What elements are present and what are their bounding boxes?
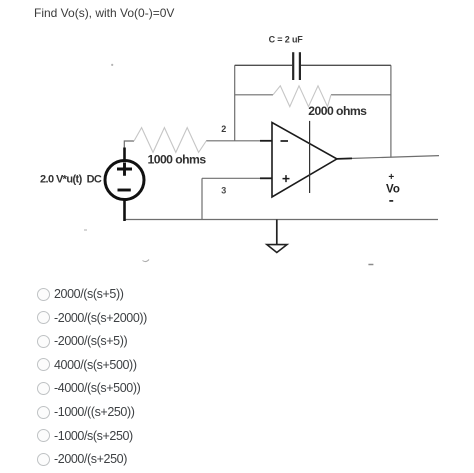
svg-text:3: 3 [221, 186, 226, 196]
svg-text:C = 2 uF: C = 2 uF [269, 34, 304, 44]
svg-text:2: 2 [221, 124, 226, 134]
svg-text:2000 ohms: 2000 ohms [308, 104, 367, 118]
svg-text:Vo: Vo [386, 183, 400, 195]
svg-text:1000 ohms: 1000 ohms [148, 153, 207, 167]
svg-text:+: + [388, 172, 394, 183]
svg-text:2.0 V*u(t) DC: 2.0 V*u(t) DC [40, 174, 102, 186]
